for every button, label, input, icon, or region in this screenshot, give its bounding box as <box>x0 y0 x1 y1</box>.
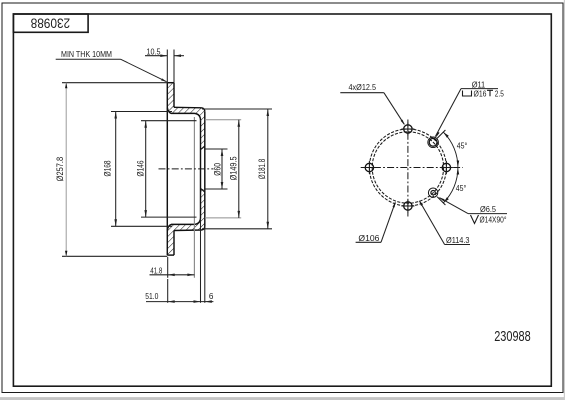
svg-text:4xØ12.5: 4xØ12.5 <box>349 83 377 92</box>
svg-text:6: 6 <box>209 292 214 301</box>
svg-text:41.8: 41.8 <box>150 266 162 275</box>
svg-text:Ø6.5: Ø6.5 <box>480 205 496 214</box>
svg-text:230988: 230988 <box>30 15 70 31</box>
svg-text:Ø11: Ø11 <box>472 80 486 89</box>
svg-text:Ø114.3: Ø114.3 <box>446 236 470 245</box>
svg-text:Ø181.8: Ø181.8 <box>257 159 268 180</box>
svg-text:45°: 45° <box>456 183 467 193</box>
svg-text:Ø149.5: Ø149.5 <box>229 156 240 180</box>
svg-text:Ø168: Ø168 <box>103 161 114 177</box>
svg-text:2.5: 2.5 <box>495 89 504 98</box>
svg-text:MIN THK 10MM: MIN THK 10MM <box>61 49 112 59</box>
svg-text:10.5: 10.5 <box>147 48 161 57</box>
svg-text:230988: 230988 <box>494 328 531 345</box>
svg-text:Ø146: Ø146 <box>135 161 146 177</box>
svg-text:45°: 45° <box>457 140 468 150</box>
svg-text:Ø60: Ø60 <box>213 163 224 176</box>
svg-text:51.0: 51.0 <box>145 292 159 301</box>
svg-text:Ø14X90°: Ø14X90° <box>480 215 507 224</box>
svg-text:Ø106: Ø106 <box>358 234 379 243</box>
svg-text:Ø16: Ø16 <box>474 89 487 98</box>
svg-text:Ø257.8: Ø257.8 <box>55 157 66 182</box>
